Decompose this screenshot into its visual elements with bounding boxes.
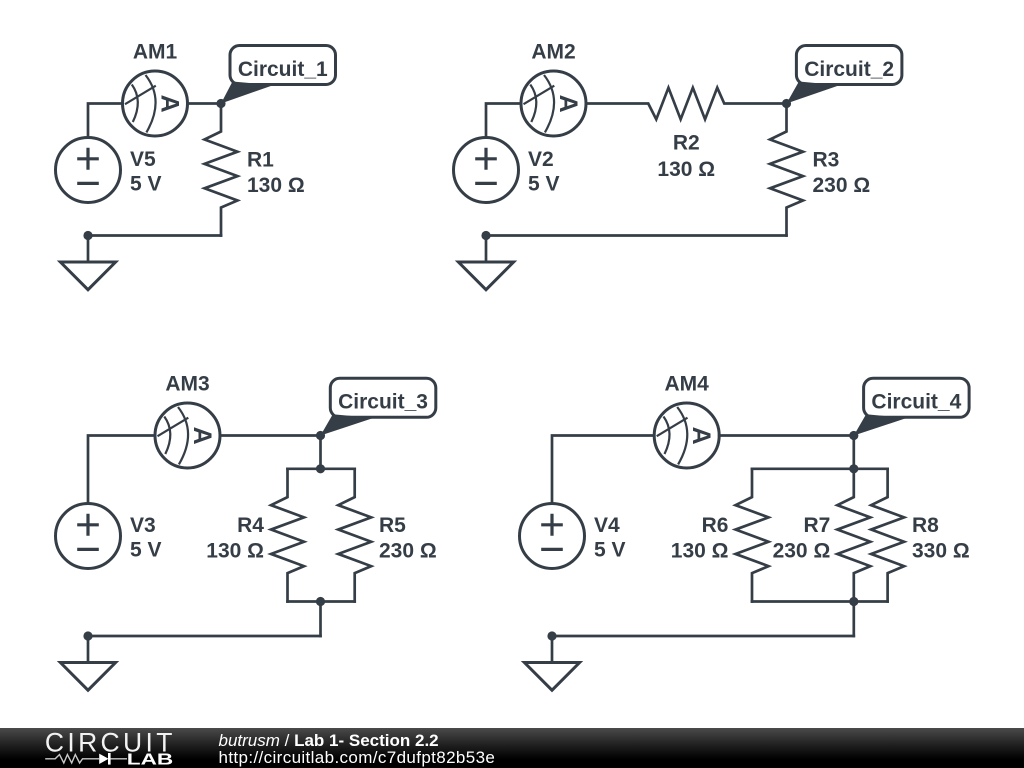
wire parallel bottom bar c3 [288, 600, 355, 603]
ground GND2 [458, 236, 513, 290]
ground GND4 [524, 636, 579, 690]
junction parallel top c3 [316, 464, 325, 473]
resistor R1 [205, 104, 238, 236]
label V4 value 5 V [594, 514, 626, 562]
junction node Circuit_3 [316, 431, 325, 440]
svg-text:5 V: 5 V [594, 539, 626, 562]
svg-text:AM1: AM1 [133, 41, 178, 64]
CircuitLab logo mini schematic wire and resistor [45, 755, 99, 764]
label R4 value 130 Ω [206, 514, 264, 562]
svg-text:AM4: AM4 [665, 373, 710, 396]
junction parallel bottom c3 [316, 597, 325, 606]
junction parallel bottom c4 [849, 597, 858, 606]
wire parallel bottom to rail c4 [852, 602, 855, 637]
label AM4 [665, 373, 710, 396]
svg-text:130 Ω: 130 Ω [671, 539, 729, 562]
wire AM4 to node Circuit_4 [719, 434, 854, 437]
voltage source V2 [454, 138, 519, 203]
svg-text:LAB: LAB [127, 752, 173, 768]
ammeter AM1 [123, 71, 188, 136]
resistor R2 [586, 88, 787, 120]
net flag Circuit_3 [321, 378, 436, 435]
wire V3 top to AM3 [88, 436, 155, 504]
svg-text:R5: R5 [379, 514, 406, 537]
svg-text:5 V: 5 V [528, 173, 560, 196]
label R7 value 230 Ω [773, 514, 831, 562]
svg-text:A: A [554, 95, 582, 113]
label V3 value 5 V [130, 514, 162, 562]
svg-text:AM2: AM2 [531, 41, 575, 64]
svg-text:R6: R6 [702, 514, 729, 537]
label AM2 [531, 41, 575, 64]
svg-text:R4: R4 [237, 514, 264, 537]
svg-text:R2: R2 [673, 132, 700, 155]
junction parallel top c4 [849, 464, 858, 473]
svg-text:Circuit_1: Circuit_1 [238, 58, 328, 81]
wire V4 top to AM4 [552, 436, 654, 504]
svg-text:330 Ω: 330 Ω [912, 539, 970, 562]
svg-text:5 V: 5 V [130, 539, 162, 562]
resistor R3 [770, 104, 803, 236]
footer bar [0, 728, 1024, 768]
svg-text:A: A [188, 427, 216, 445]
svg-text:130 Ω: 130 Ω [247, 174, 305, 197]
net flag Circuit_4 [854, 378, 969, 435]
wire AM3 to node Circuit_3 [220, 434, 321, 437]
voltage source V5 [56, 138, 121, 203]
svg-text:Circuit_3: Circuit_3 [338, 391, 428, 414]
label V5 value 5 V [130, 148, 162, 196]
svg-text:5 V: 5 V [130, 173, 162, 196]
junction V4 bottom [547, 631, 556, 640]
net flag Circuit_2 [787, 46, 902, 104]
ammeter AM4 [654, 403, 719, 468]
wire node to parallel top c4 [852, 436, 855, 469]
wire bottom rail circuit 3 [88, 635, 321, 638]
label R5 value 230 Ω [379, 514, 437, 562]
wire AM1 to node Circuit_1 [188, 102, 222, 105]
label V2 value 5 V [528, 148, 560, 196]
svg-text:V2: V2 [528, 148, 554, 171]
svg-text:230 Ω: 230 Ω [379, 539, 437, 562]
label AM1 [133, 41, 178, 64]
svg-text:R8: R8 [912, 514, 939, 537]
wire parallel top bar c4 [752, 467, 888, 470]
wire parallel bottom to rail c3 [319, 602, 322, 637]
label R6 value 130 Ω [671, 514, 729, 562]
svg-text:130 Ω: 130 Ω [657, 158, 715, 181]
label AM3 [165, 373, 209, 396]
ground GND3 [60, 636, 115, 690]
svg-text:http://circuitlab.com/c7dufpt8: http://circuitlab.com/c7dufpt82b53e [219, 748, 495, 767]
voltage source V3 [56, 504, 121, 569]
wire parallel bottom bar c4 [752, 600, 888, 603]
svg-text:130 Ω: 130 Ω [206, 539, 264, 562]
svg-text:230 Ω: 230 Ω [773, 539, 831, 562]
svg-text:A: A [687, 427, 715, 445]
svg-text:R7: R7 [803, 514, 830, 537]
svg-text:V4: V4 [594, 514, 620, 537]
label R1 value 130 Ω [247, 149, 305, 197]
wire V2 top to AM2 [486, 104, 521, 138]
svg-text:R3: R3 [813, 149, 840, 172]
svg-text:Circuit_2: Circuit_2 [804, 58, 894, 81]
svg-text:V3: V3 [130, 514, 156, 537]
junction V2 bottom [481, 231, 490, 240]
wire bottom rail circuit 2 [486, 234, 787, 237]
junction node Circuit_2 [782, 99, 791, 108]
net flag Circuit_1 [221, 46, 336, 104]
resistor R6 [736, 469, 769, 602]
svg-text:230 Ω: 230 Ω [813, 174, 871, 197]
svg-text:Circuit_4: Circuit_4 [871, 391, 961, 414]
wire parallel top bar c3 [288, 467, 355, 470]
junction V5 bottom [83, 231, 92, 240]
label R2 value 130 Ω [657, 132, 715, 182]
CircuitLab logo diode [99, 754, 108, 764]
junction node Circuit_1 [216, 99, 225, 108]
junction V3 bottom [83, 631, 92, 640]
wire bottom rail circuit 1 [88, 234, 221, 237]
label R8 value 330 Ω [912, 514, 970, 562]
svg-text:R1: R1 [247, 149, 274, 172]
resistor R5 [338, 469, 371, 602]
resistor R4 [271, 469, 304, 602]
svg-text:AM3: AM3 [165, 373, 209, 396]
ammeter AM3 [155, 403, 220, 468]
resistor R8 [871, 469, 904, 602]
resistor R7 [837, 469, 870, 602]
wire V5 top to AM1 [88, 104, 123, 138]
wire bottom rail circuit 4 [552, 635, 854, 638]
wire node to parallel top [319, 436, 322, 469]
junction node Circuit_4 [849, 431, 858, 440]
label R3 value 230 Ω [813, 149, 871, 197]
svg-text:V5: V5 [130, 148, 156, 171]
ammeter AM2 [521, 71, 586, 136]
svg-text:A: A [156, 95, 184, 113]
ground GND1 [60, 236, 115, 290]
voltage source V4 [520, 504, 585, 569]
